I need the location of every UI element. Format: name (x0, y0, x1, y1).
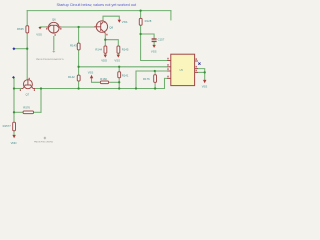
svg-text:VSS: VSS (122, 20, 128, 24)
svg-text:R176: R176 (143, 77, 150, 81)
svg-text:U5: U5 (180, 68, 184, 72)
svg-text:R160: R160 (100, 77, 107, 81)
svg-text:VDD: VDD (11, 141, 17, 145)
svg-text:R141: R141 (122, 74, 129, 78)
svg-text:R1577: R1577 (3, 124, 12, 128)
svg-text:VSS: VSS (114, 59, 120, 63)
svg-text:R576: R576 (23, 106, 30, 110)
svg-text:VSS: VSS (36, 33, 42, 37)
svg-text:VSS: VSS (88, 71, 94, 75)
svg-text:R145: R145 (122, 47, 129, 51)
svg-text:Q6: Q6 (52, 17, 56, 21)
svg-text:VDD: VDD (101, 59, 107, 63)
svg-text:R128: R128 (145, 19, 152, 23)
svg-text:Q8: Q8 (109, 25, 113, 29)
svg-text:VSS: VSS (151, 49, 157, 53)
svg-text:C157: C157 (158, 37, 165, 41)
svg-text:VSS: VSS (202, 84, 208, 88)
svg-text:PMOS P/W BU/CUDA P/W 2t: PMOS P/W BU/CUDA P/W 2t (36, 58, 64, 61)
svg-text:Q7: Q7 (26, 92, 30, 96)
svg-text:R142: R142 (68, 75, 75, 79)
svg-text:R635: R635 (17, 27, 24, 31)
svg-text:R144: R144 (95, 47, 102, 51)
svg-text:PMOS P/W 178/760: PMOS P/W 178/760 (34, 142, 54, 144)
svg-text:Startup Circuit below, values: Startup Circuit below, values not yet wo… (57, 2, 137, 7)
svg-text:R143: R143 (70, 44, 77, 48)
